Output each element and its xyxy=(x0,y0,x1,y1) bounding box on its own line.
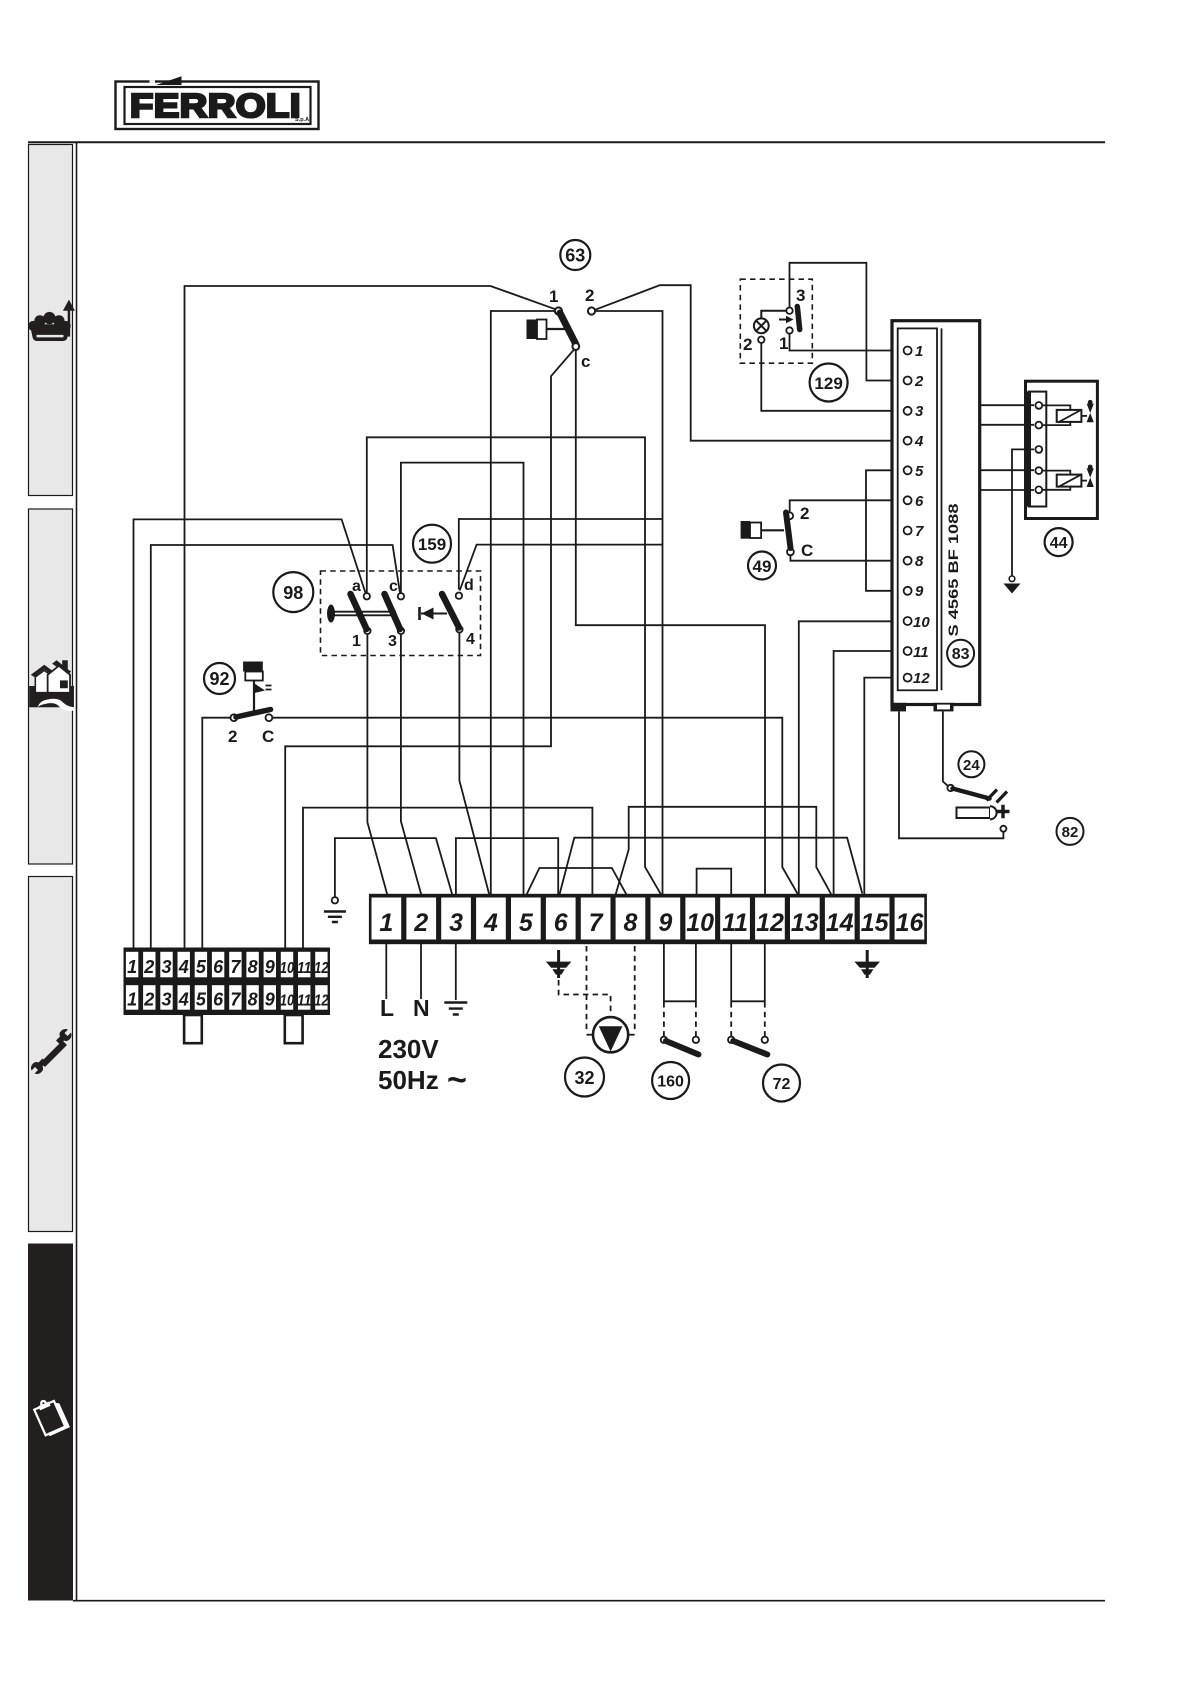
electrode body xyxy=(957,808,991,819)
svg-text:2: 2 xyxy=(143,957,154,977)
svg-text:63: 63 xyxy=(565,246,585,266)
svg-text:9: 9 xyxy=(915,583,924,600)
svg-text:8: 8 xyxy=(248,990,258,1010)
board terminals 1-12 xyxy=(904,347,912,682)
wire: bridge bottom strip cell 5 to cell 8 xyxy=(527,868,627,895)
circle label 160 xyxy=(652,1062,689,1099)
svg-text:9: 9 xyxy=(265,957,275,977)
svg-text:16: 16 xyxy=(896,909,925,937)
wire: switch 63 lever c diagonal to left strip cell 10 xyxy=(285,348,576,950)
svg-text:4: 4 xyxy=(914,433,924,450)
svg-text:49: 49 xyxy=(753,557,772,576)
svg-text:14: 14 xyxy=(826,909,854,937)
wire: switch 49 contact C to board t8 xyxy=(790,555,903,561)
selector contacts xyxy=(364,593,463,635)
wire: switch 49 contact 2 to board t6 xyxy=(790,500,904,512)
svg-text:72: 72 xyxy=(773,1076,791,1093)
wire: board t12 to bottom strip cell 15 xyxy=(864,678,903,896)
svg-text:12: 12 xyxy=(913,670,930,687)
svg-text:11: 11 xyxy=(297,993,312,1010)
svg-text:7: 7 xyxy=(230,957,241,977)
svg-text:12: 12 xyxy=(314,993,329,1010)
thermostat switch 63 xyxy=(527,286,596,371)
svg-text:12: 12 xyxy=(756,909,784,937)
wire: board t11 to bottom strip cell 14 xyxy=(834,651,904,896)
svg-text:6: 6 xyxy=(213,990,224,1010)
wire: selector contact a up and over to bottom strip cell 9 xyxy=(367,437,661,894)
sidebar gray tab 3 xyxy=(29,877,73,1232)
svg-text:1: 1 xyxy=(915,343,923,360)
svg-text:d: d xyxy=(464,577,474,594)
circle label 82 xyxy=(1057,818,1084,845)
wire: node d diagonal to vertical 662 at y544.6 xyxy=(460,545,663,591)
svg-text:2: 2 xyxy=(914,373,924,390)
icon wrench xyxy=(31,1029,72,1074)
svg-text:7: 7 xyxy=(589,909,604,937)
wire: L stub below cell 1 xyxy=(385,943,387,999)
switch 72 xyxy=(728,1002,768,1055)
svg-text:L: L xyxy=(380,995,394,1021)
svg-text:2: 2 xyxy=(743,335,752,354)
svg-text:5: 5 xyxy=(519,909,534,937)
svg-text:7: 7 xyxy=(230,990,241,1010)
selector levers xyxy=(351,594,460,629)
svg-text:15: 15 xyxy=(861,909,890,937)
circle label 24 xyxy=(958,751,984,777)
lamp symbol xyxy=(754,311,786,333)
bottom terminal strip 1-16 xyxy=(369,894,927,944)
selector shaft xyxy=(327,605,447,623)
svg-text:2: 2 xyxy=(413,909,428,937)
sidebar left content border xyxy=(76,142,78,1601)
svg-text:4: 4 xyxy=(178,990,189,1010)
svg-text:9: 9 xyxy=(265,990,275,1010)
svg-text:C: C xyxy=(262,727,274,746)
svg-text:2: 2 xyxy=(228,727,237,746)
wire: selector contact c up and over to bottom strip cell 5 xyxy=(401,463,524,896)
svg-text:5: 5 xyxy=(915,463,924,480)
wire: switch 63 contact2 tap down to bottom strip cell 9 xyxy=(595,311,663,896)
wire: left strip cell 1 to selector contact a xyxy=(134,519,366,949)
circle label 44 xyxy=(1045,528,1073,556)
page top rule xyxy=(28,141,1105,143)
circle label 83 xyxy=(947,640,974,667)
circle label 159 xyxy=(413,525,451,563)
selector labels xyxy=(352,577,475,650)
svg-text:160: 160 xyxy=(657,1074,684,1091)
sidebar gray tab 1 xyxy=(29,145,73,496)
room thermostat switch 160 xyxy=(661,1002,699,1055)
svg-text:10: 10 xyxy=(913,614,930,631)
svg-text:230V: 230V xyxy=(378,1034,439,1064)
svg-text:4: 4 xyxy=(466,631,475,648)
svg-text:1: 1 xyxy=(779,334,788,353)
pump 32 xyxy=(593,1017,628,1052)
connector 44 inner strip xyxy=(1029,392,1047,507)
wire: N stub below cell 2 xyxy=(420,943,422,999)
circle label 98 xyxy=(273,572,313,612)
wire: switch 63 contact1 to left strip cell 4 xyxy=(185,286,558,949)
svg-text:11: 11 xyxy=(297,960,312,977)
sidebar gray tab 2 xyxy=(29,509,73,864)
pump dashed leads from cells 7 and 8 xyxy=(586,946,588,1032)
svg-text:50Hz: 50Hz xyxy=(378,1065,439,1095)
svg-text:~: ~ xyxy=(447,1061,467,1099)
svg-text:98: 98 xyxy=(283,583,303,603)
circle label 49 xyxy=(748,552,776,580)
svg-text:13: 13 xyxy=(791,909,819,937)
svg-text:8: 8 xyxy=(248,957,258,977)
left terminal strip 2x12 xyxy=(124,948,331,1044)
FERROLI logo xyxy=(116,76,319,129)
svg-text:FERROLI: FERROLI xyxy=(130,87,301,124)
svg-text:3: 3 xyxy=(161,990,171,1010)
svg-text:c: c xyxy=(581,352,590,371)
earth symbol below cell 3 xyxy=(444,1003,467,1015)
svg-text:3: 3 xyxy=(796,286,805,305)
wire: switch 92 contactC to bottom strip cell 13 xyxy=(272,718,798,895)
svg-text:92: 92 xyxy=(209,669,229,689)
thermostat switch 49 xyxy=(741,504,814,560)
wire: board t10 to bottom strip cell 13 xyxy=(799,621,904,895)
wire: earth bus segment cell6 to cell15 xyxy=(560,838,863,895)
svg-text:2: 2 xyxy=(800,504,809,523)
svg-text:3: 3 xyxy=(449,909,463,937)
icon houses xyxy=(29,660,75,711)
svg-text:a: a xyxy=(352,578,361,595)
svg-text:83: 83 xyxy=(952,646,970,663)
wire: bridge above strip cells 10-11 xyxy=(697,869,732,896)
circle label 32 xyxy=(565,1058,604,1097)
svg-text:1: 1 xyxy=(127,957,137,977)
svg-text:S.p.A: S.p.A xyxy=(295,117,309,123)
wire: selector contact 3 to bottom strip cell 2 xyxy=(401,634,422,896)
svg-text:10: 10 xyxy=(280,960,295,977)
wire: left strip cell 2 to selector contact c xyxy=(151,545,400,949)
dashed link flag to pump top xyxy=(559,980,611,1015)
lamp unit contacts and lever xyxy=(743,286,805,354)
svg-text:24: 24 xyxy=(963,757,980,774)
svg-text:5: 5 xyxy=(196,957,207,977)
wire: board t2 to lamp switch contact 3 xyxy=(790,263,904,381)
svg-text:11: 11 xyxy=(722,909,748,937)
svg-text:4: 4 xyxy=(178,957,189,977)
wire: jumper below strip cells 9-10 xyxy=(664,943,696,1001)
svg-text:C: C xyxy=(801,541,813,560)
selector switch dashed box 159 xyxy=(321,571,481,656)
svg-text:159: 159 xyxy=(418,535,446,554)
wire: switch 63 contact1 tap down to bottom strip cell 4 xyxy=(491,311,555,896)
svg-text:12: 12 xyxy=(314,960,329,977)
svg-text:2: 2 xyxy=(143,990,154,1010)
wire: earth bus segment cell3 to cell6 xyxy=(456,838,558,895)
circle label 129 xyxy=(810,364,848,402)
icon sofa and lamp xyxy=(28,300,75,341)
svg-text:1: 1 xyxy=(549,287,558,306)
wire: earth bus from ground symbol to cell 3 xyxy=(335,838,453,897)
lamp-switch unit 129 dashed box xyxy=(740,279,812,363)
wire: bridge bottom strip cell 8 to cell 14 xyxy=(616,807,832,895)
wire: selector contact 1 to bottom strip cell 1 xyxy=(367,634,387,896)
svg-text:4: 4 xyxy=(483,909,498,937)
svg-text:6: 6 xyxy=(554,909,569,937)
svg-text:82: 82 xyxy=(1062,824,1079,841)
circle label 63 xyxy=(560,240,590,270)
ignition electrode 24 loop xyxy=(899,712,1003,839)
svg-text:2: 2 xyxy=(585,286,594,305)
svg-text:129: 129 xyxy=(814,374,842,393)
wire: switch 63 contact2 diagonal to board terminal 4 xyxy=(595,285,904,441)
circle label 72 xyxy=(763,1065,800,1102)
svg-text:3: 3 xyxy=(388,633,397,650)
svg-text:8: 8 xyxy=(624,909,638,937)
wires board to connector 44 xyxy=(980,405,1034,575)
page bottom rule xyxy=(73,1600,1105,1602)
wire: earth stub below cell 3 xyxy=(455,943,457,1000)
svg-text:10: 10 xyxy=(280,993,295,1010)
wire: board t5-t9 bracket xyxy=(866,470,904,591)
icon clipboard xyxy=(32,1394,70,1437)
svg-text:1: 1 xyxy=(352,633,361,650)
earth flag below cell 15 xyxy=(854,950,880,978)
wire: switch 63 lever c down then right to bottom strip cell 12 xyxy=(576,349,765,896)
wire: switch 92 contact2 to left strip cell 5 xyxy=(202,718,231,949)
wire: selector contact 4 to bottom strip cell 4 xyxy=(459,633,489,896)
connector 44 contacts xyxy=(1035,402,1042,493)
svg-text:8: 8 xyxy=(915,553,924,570)
connector 44 outer box xyxy=(1026,381,1098,518)
svg-text:7: 7 xyxy=(915,523,924,540)
gas valve 1 xyxy=(1043,405,1088,425)
svg-text:5: 5 xyxy=(196,990,207,1010)
svg-text:44: 44 xyxy=(1050,535,1068,552)
svg-text:9: 9 xyxy=(658,909,672,937)
earth flag below cell 6 xyxy=(546,950,572,978)
svg-text:3: 3 xyxy=(161,957,171,977)
wire: left strip cell 11 to bottom strip cell 7 xyxy=(303,808,592,949)
svg-text:11: 11 xyxy=(913,644,929,661)
svg-text:6: 6 xyxy=(915,493,924,510)
svg-text:c: c xyxy=(389,578,398,595)
connector 44 ground xyxy=(1009,576,1015,582)
svg-text:32: 32 xyxy=(574,1068,594,1088)
svg-text:10: 10 xyxy=(686,909,714,937)
ground symbol left of bottom strip xyxy=(324,897,346,922)
svg-text:1: 1 xyxy=(379,909,393,937)
wire: jumper below strip cells 11-12 xyxy=(731,943,765,1001)
wire: node d to vertical 662 at y519 xyxy=(459,519,663,590)
svg-text:S 4565 BF 1088: S 4565 BF 1088 xyxy=(946,503,961,637)
circle label 92 xyxy=(204,663,235,694)
control board inner frame xyxy=(898,328,937,690)
svg-text:3: 3 xyxy=(915,403,924,420)
gas valve 2 xyxy=(1043,471,1088,490)
wire: board t3 to lamp contact 2 xyxy=(761,343,903,411)
control board 83 outer xyxy=(892,321,980,705)
sidebar black tab 4 xyxy=(28,1244,73,1601)
svg-text:6: 6 xyxy=(213,957,224,977)
svg-text:1: 1 xyxy=(127,990,137,1010)
wire: board t1 to lamp switch contact 1 xyxy=(790,334,904,351)
board feet xyxy=(891,703,907,712)
thermostat switch 92 xyxy=(228,662,274,747)
svg-text:N: N xyxy=(413,995,430,1021)
